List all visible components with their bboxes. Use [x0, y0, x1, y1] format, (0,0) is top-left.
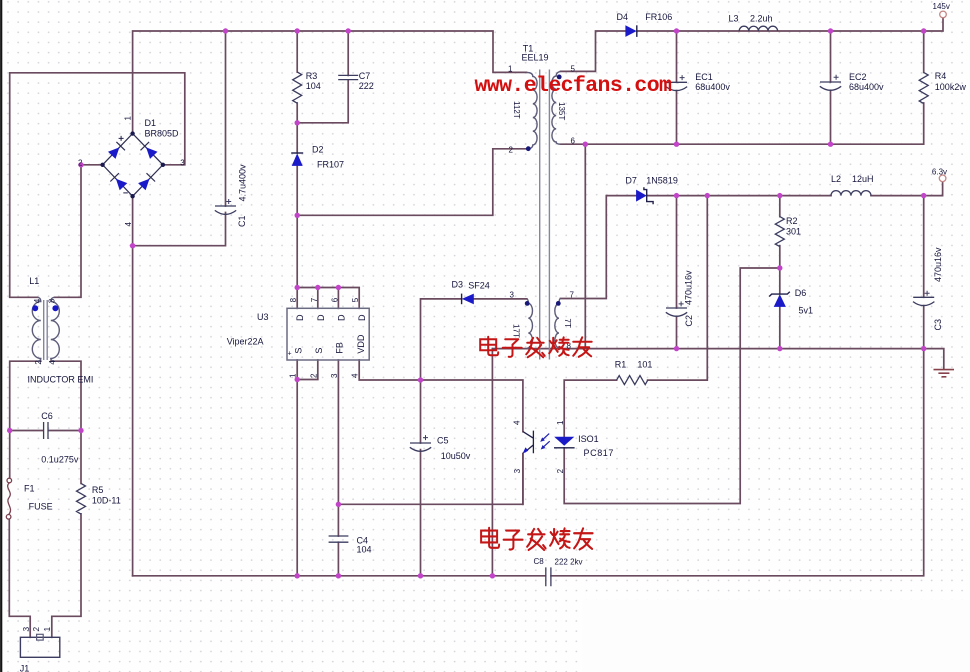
connector J1 box [20, 637, 59, 657]
svg-text:D: D [316, 314, 326, 321]
svg-text:222 2kv: 222 2kv [555, 557, 583, 566]
wire C3 bottom lead [923, 306, 925, 349]
svg-text:301: 301 [786, 226, 801, 236]
T1 primary winding 112T [527, 72, 538, 148]
wire EC1 bottom lead [676, 91, 678, 145]
T1 secondary winding 7T [555, 299, 561, 349]
svg-text:C7: C7 [359, 71, 371, 81]
resistor R3 [293, 72, 302, 103]
svg-text:6: 6 [571, 136, 576, 145]
wire R2 top lead [779, 196, 781, 217]
svg-text:0.1u275v: 0.1u275v [41, 454, 79, 464]
wire F1 bottom to J1 pin [9, 519, 30, 637]
T1 aux winding 17T [527, 299, 533, 349]
D1 diode bottom-left [116, 179, 127, 191]
svg-text:10u50v: 10u50v [441, 451, 471, 461]
svg-text:5: 5 [351, 297, 360, 302]
svg-text:68u400v: 68u400v [849, 82, 884, 92]
ground symbol [934, 370, 955, 377]
resistor R1 [617, 376, 648, 385]
svg-text:C2: C2 [684, 315, 694, 327]
fuse F1 [6, 478, 11, 519]
D1 minus mark [123, 192, 128, 194]
svg-text:R1: R1 [615, 360, 627, 370]
capacitor EC1 electrolytic [666, 82, 687, 90]
wire T1 aux return to primary ground bus [491, 349, 493, 576]
svg-text:2: 2 [556, 468, 565, 473]
IC U3 Viper22A box [287, 308, 369, 360]
svg-text:1: 1 [289, 373, 298, 378]
svg-text:4: 4 [513, 420, 522, 425]
svg-text:D1: D1 [145, 118, 157, 128]
wire EC2 top lead [830, 31, 832, 82]
wire C7 bottom to R3 bottom [297, 80, 348, 123]
svg-text:135T: 135T [557, 102, 566, 120]
wire C5 bottom to ground bus [420, 450, 422, 576]
svg-text:C8: C8 [534, 557, 545, 566]
capacitor C6 plates [44, 422, 48, 439]
sheet border [0, 0, 2, 672]
svg-text:EC1: EC1 [695, 72, 713, 82]
inductor L2 [831, 191, 871, 196]
D1 diode top-right [146, 147, 157, 159]
ISO1 LED [554, 437, 574, 446]
svg-text:2: 2 [32, 626, 41, 631]
T1 polarity dot pin2 [526, 146, 531, 151]
svg-text:470u16v: 470u16v [933, 247, 943, 282]
wire D2 anode to drain node [296, 166, 298, 287]
capacitor C5 plus [423, 435, 428, 440]
wire opto pin3 emitter stub [522, 454, 524, 505]
wire D6 anode to secondary ground [779, 307, 781, 348]
svg-text:12uH: 12uH [852, 174, 874, 184]
watermark CJK upper [480, 337, 592, 358]
svg-text:6.3v: 6.3v [932, 167, 947, 176]
wire C2 bottom lead [676, 316, 678, 348]
capacitor EC2 plus [834, 75, 839, 80]
T1 polarity dot pin5 [557, 75, 562, 80]
inductor L1 common mode choke [32, 297, 59, 361]
svg-text:D: D [336, 314, 346, 321]
capacitor EC2 electrolytic [820, 82, 841, 90]
svg-text:10D-11: 10D-11 [92, 495, 121, 505]
T1 core [540, 70, 550, 360]
svg-text:3: 3 [48, 298, 57, 303]
capacitor C2 plus [679, 301, 684, 306]
svg-text:470u16v: 470u16v [683, 270, 693, 305]
inductor L3 [739, 26, 777, 31]
svg-text:112T: 112T [512, 101, 521, 119]
svg-text:104: 104 [357, 544, 372, 554]
svg-text:J1: J1 [20, 664, 30, 672]
wire C4 bottom to ground bus [337, 542, 339, 576]
svg-text:4: 4 [124, 222, 133, 227]
capacitor C3 electrolytic [913, 297, 934, 305]
wire R1 to opto LED anode [564, 380, 616, 437]
svg-text:VDD: VDD [356, 334, 366, 354]
svg-text:INDUCTOR EMI: INDUCTOR EMI [28, 374, 94, 384]
svg-text:2: 2 [309, 373, 318, 378]
svg-text:4: 4 [351, 373, 360, 378]
svg-text:C3: C3 [933, 319, 943, 331]
diode D4 FR106 [625, 25, 636, 37]
resistor R5 [77, 483, 86, 514]
svg-text:C1: C1 [237, 215, 247, 227]
capacitor C4 plates [329, 536, 349, 542]
svg-text:D: D [295, 314, 305, 321]
svg-text:D3: D3 [452, 280, 464, 290]
wire U3 pin6 stub [337, 288, 339, 309]
diode D3 SF24 [462, 294, 474, 305]
svg-text:D7: D7 [625, 175, 637, 185]
svg-text:D2: D2 [312, 145, 324, 155]
wire T1 pin 5 up to D4 [561, 31, 626, 71]
svg-text:101: 101 [637, 360, 652, 370]
wire C1 bottom to bridge minus column [133, 213, 226, 246]
wire FB feedback line to opto emitter [338, 454, 523, 505]
svg-text:17T: 17T [512, 324, 521, 338]
svg-text:3: 3 [22, 626, 31, 631]
watermark CJK lower [481, 528, 592, 550]
wire 6.3v raw rail D7 to L2 [647, 195, 831, 197]
capacitor C8 plates [546, 567, 551, 586]
svg-text:5: 5 [571, 64, 576, 73]
svg-text:L2: L2 [831, 174, 841, 184]
wire primary ground bus left of C8 [133, 575, 546, 577]
wire R1 feed from 6.3v raw node [648, 196, 708, 381]
L1 polarity dot left [32, 305, 38, 311]
wire drain node to T1 pin 2 [297, 149, 526, 216]
bridge rectifier D1 [100, 131, 165, 198]
wire primary ground bus right of C8 [551, 349, 924, 576]
wire EC1 top lead [676, 31, 678, 82]
wire bridge minus column down to primary ground bus [132, 196, 134, 576]
svg-text:100k2w: 100k2w [935, 82, 967, 92]
resistor R4 [919, 72, 928, 103]
svg-text:2: 2 [509, 145, 514, 154]
capacitor C5 electrolytic [410, 443, 431, 451]
svg-text:EEL19: EEL19 [522, 52, 549, 62]
svg-text:D4: D4 [617, 12, 629, 22]
wire T1 pin 7 up to D7 anode [561, 196, 637, 299]
svg-text:F1: F1 [24, 483, 35, 493]
wire U3 source pins 1-2 junction [296, 360, 298, 576]
wire C3 top lead [923, 196, 925, 298]
resistor R2 [775, 217, 784, 247]
diode D2 FR107 [291, 153, 303, 166]
svg-text:ISO1: ISO1 [578, 434, 599, 444]
wire zener node to opto cathode loop [564, 268, 780, 504]
svg-text:D6: D6 [795, 288, 807, 298]
wire R3 bottom to snubber node [296, 103, 298, 153]
wire R5 bottom to J1 pin [52, 514, 81, 637]
svg-text:www.elecfans.com: www.elecfans.com [475, 74, 673, 98]
svg-text:68u400v: 68u400v [695, 82, 730, 92]
L1 left winding [32, 297, 41, 361]
wire C7 tap [347, 31, 349, 75]
svg-text:145v: 145v [933, 2, 950, 11]
wire U3 pin7 stub [317, 288, 319, 309]
svg-text:PC817: PC817 [584, 448, 615, 458]
svg-text:3: 3 [180, 158, 185, 167]
svg-text:8: 8 [289, 297, 298, 302]
svg-text:L3: L3 [729, 14, 739, 24]
ISO1 phototransistor [523, 431, 534, 454]
svg-text:4: 4 [33, 298, 42, 303]
wire D3 anode to T1 pin 3 [474, 298, 527, 300]
svg-text:L1: L1 [29, 276, 39, 286]
svg-text:1: 1 [508, 64, 513, 73]
wire D3 cathode down to VDD node [421, 299, 462, 380]
svg-text:D: D [357, 314, 367, 321]
svg-text:R5: R5 [92, 485, 104, 495]
T1 polarity dot pin7 [556, 301, 561, 306]
wire C6 left lead [10, 430, 43, 432]
wire secondary ground to GND symbol [924, 349, 944, 369]
svg-text:3: 3 [330, 373, 339, 378]
svg-text:2.2uh: 2.2uh [750, 14, 773, 24]
wire U3 VDD pin4 to opto collector [359, 360, 523, 432]
svg-text:R4: R4 [935, 71, 947, 81]
wire bridge AC left to L1 pin 3 [55, 165, 103, 297]
svg-text:Viper22A: Viper22A [227, 337, 264, 347]
svg-text:3: 3 [510, 290, 515, 299]
svg-text:C6: C6 [41, 411, 53, 421]
D1 vertex dots [130, 131, 134, 135]
svg-text:1: 1 [556, 420, 565, 425]
D1 plus mark [119, 136, 124, 141]
L1 polarity dot right [52, 305, 58, 311]
diode D7 1N5819 schottky [636, 187, 653, 204]
wire R2 bottom to zener node [779, 246, 781, 294]
wire L1 pin2 to C6 left column [10, 361, 41, 478]
svg-text:7: 7 [310, 297, 319, 302]
svg-text:FR107: FR107 [317, 160, 344, 170]
T1 secondary winding 135T [552, 71, 561, 144]
svg-text:3: 3 [513, 468, 522, 473]
wire L2 to 6.3v terminal [871, 182, 943, 196]
zener D6 5v1 [769, 292, 790, 307]
wire bridge AC right loop to L1 pin 4 [10, 73, 185, 297]
svg-text:FUSE: FUSE [29, 501, 53, 511]
svg-text:222: 222 [359, 81, 374, 91]
svg-text:S: S [294, 348, 304, 354]
U3 pin names [294, 314, 368, 354]
transformer T1 [527, 70, 561, 360]
capacitor C7 plates [338, 75, 358, 79]
D1 diode top-left [108, 147, 119, 159]
L1 right winding [51, 297, 60, 361]
terminal 6.3v [939, 175, 946, 182]
svg-text:4: 4 [48, 360, 57, 365]
svg-text:U3: U3 [257, 312, 269, 322]
wire R4 top lead [923, 31, 925, 72]
L1 core [44, 300, 48, 360]
wire top DC bus from bridge + to T1 pin 1 [133, 31, 527, 134]
svg-text:7T: 7T [563, 319, 572, 328]
wire C2 top lead [676, 196, 678, 308]
svg-text:+: + [288, 351, 292, 358]
capacitor EC1 plus [680, 75, 685, 80]
T1 polarity dot pin3 [525, 301, 530, 306]
capacitor C3 plus [925, 291, 930, 296]
svg-text:FB: FB [335, 342, 345, 354]
svg-text:R3: R3 [306, 71, 318, 81]
svg-text:SF24: SF24 [468, 280, 490, 290]
svg-text:FR106: FR106 [645, 12, 672, 22]
wire secondary ground rail [492, 348, 923, 350]
wire T1 pin6 junction down to secondary ground [584, 144, 586, 348]
svg-text:6: 6 [330, 297, 339, 302]
wire R3 tap [296, 31, 298, 72]
capacitor C1 plus [226, 199, 231, 204]
svg-text:BR805D: BR805D [145, 129, 180, 139]
wire L1 pin1 to R5 column [51, 361, 81, 483]
svg-text:1N5819: 1N5819 [646, 175, 678, 185]
wire 145v rail D4 to terminal [637, 18, 943, 31]
wire C1 top tap [225, 31, 227, 206]
J1 pin2 square [37, 634, 44, 640]
terminal 145v [940, 11, 947, 18]
wire EC2 bottom lead [830, 90, 832, 144]
svg-text:7: 7 [570, 290, 575, 299]
svg-text:C5: C5 [437, 435, 449, 445]
svg-text:EC2: EC2 [849, 72, 867, 82]
svg-text:4.7u400v: 4.7u400v [237, 164, 247, 202]
wire U3 FB pin 3 column [337, 360, 339, 536]
svg-text:2: 2 [78, 158, 83, 167]
wire C6 right lead [48, 430, 81, 432]
capacitor C1 electrolytic [215, 206, 236, 214]
svg-text:2: 2 [34, 360, 43, 365]
wire U3 pin8 stub [296, 288, 298, 309]
wire T1 pin 6 rail 145v return [561, 103, 924, 144]
svg-text:1: 1 [123, 116, 132, 121]
capacitor C2 electrolytic [666, 308, 687, 316]
wire C5 top lead [420, 380, 422, 443]
svg-text:1: 1 [43, 626, 52, 631]
D1 diamond outline [103, 134, 163, 197]
svg-text:R2: R2 [786, 216, 798, 226]
D1 diode bottom-right [138, 179, 149, 191]
optocoupler ISO1 PC817 [523, 431, 575, 454]
svg-text:S: S [314, 348, 324, 354]
ISO1 light arrows [540, 434, 550, 450]
svg-text:104: 104 [306, 81, 321, 91]
svg-text:5v1: 5v1 [799, 305, 814, 315]
wire U3 drain pin bus [297, 288, 359, 309]
